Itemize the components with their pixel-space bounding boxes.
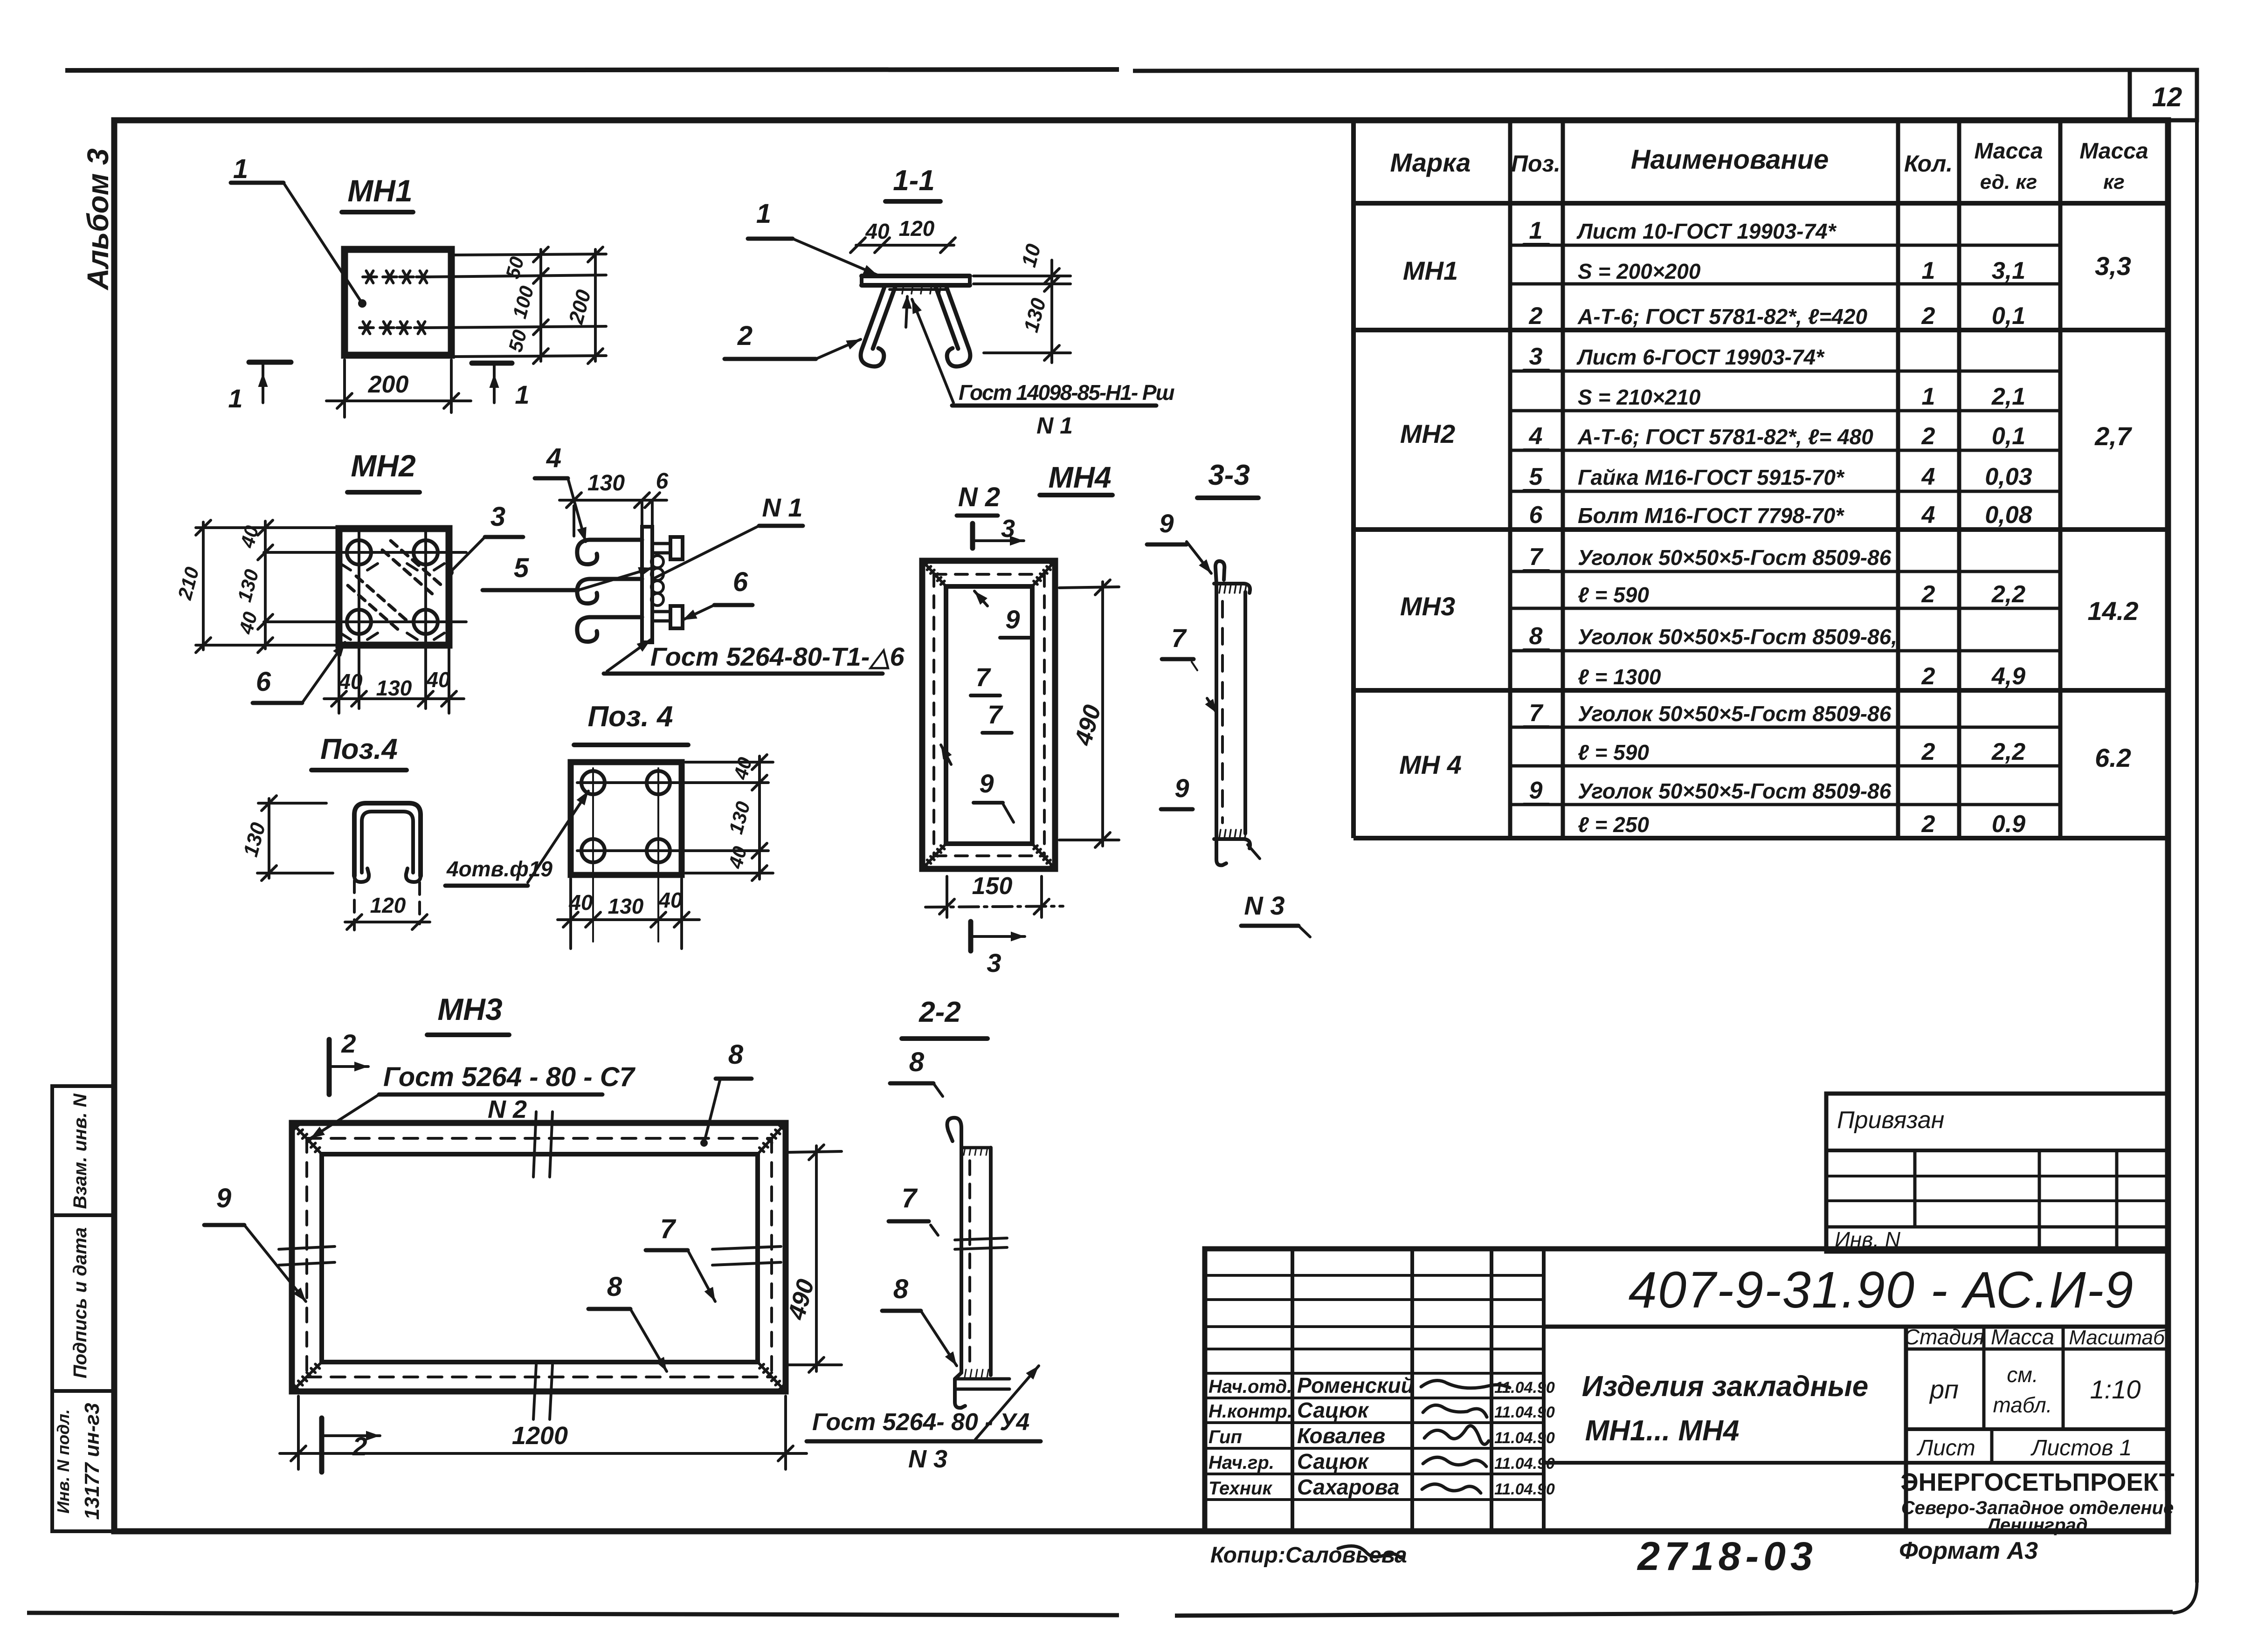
svg-text:6: 6 xyxy=(256,667,271,697)
table subrow line y=526 xyxy=(1510,244,2060,247)
svg-text:МН1: МН1 xyxy=(1403,256,1458,285)
stadia/massa divider xyxy=(1982,1327,1986,1429)
table column line x=3239 xyxy=(1508,120,1512,838)
dim line 200 horizontal xyxy=(326,399,471,402)
svg-text:200: 200 xyxy=(368,371,409,398)
2-2 serration bottom xyxy=(965,1370,966,1377)
underline MN1 xyxy=(342,210,413,214)
svg-text:0,03: 0,03 xyxy=(1985,463,2032,490)
svg-text:1: 1 xyxy=(233,154,248,184)
svg-text:Болт М16-ГОСТ 7798-70*: Болт М16-ГОСТ 7798-70* xyxy=(1578,503,1844,528)
svg-text:8: 8 xyxy=(909,1047,925,1077)
svg-text:МН 4: МН 4 xyxy=(1399,750,1462,779)
svg-text:2: 2 xyxy=(1529,303,1543,330)
svg-text:3,1: 3,1 xyxy=(1992,257,2025,284)
privyazan row line xyxy=(1826,1225,2168,1229)
svg-text:2-2: 2-2 xyxy=(918,996,961,1028)
privyazan header bottom xyxy=(1826,1149,2168,1152)
svg-text:2,2: 2,2 xyxy=(1991,738,2025,765)
MN3 dim 1200 xyxy=(297,1396,300,1469)
plate holes xyxy=(581,771,605,794)
svg-text:Нач.гр.: Нач.гр. xyxy=(1208,1452,1274,1473)
2-2 top hook xyxy=(947,1118,961,1151)
plate right dims 40 130 40 xyxy=(685,761,773,764)
svg-text:МН1... МН4: МН1... МН4 xyxy=(1585,1415,1740,1447)
svg-text:Уголок 50×50×5-Гост 8509-86: Уголок 50×50×5-Гост 8509-86 xyxy=(1578,545,1892,570)
svg-text:4: 4 xyxy=(1921,502,1935,529)
1-1 weld arrow xyxy=(906,296,907,327)
list/listov divider xyxy=(1990,1429,1994,1463)
svg-text:ℓ = 590: ℓ = 590 xyxy=(1578,740,1649,764)
svg-text:3-3: 3-3 xyxy=(1208,459,1250,491)
svg-text:ℓ = 1300: ℓ = 1300 xyxy=(1578,665,1661,689)
dim line 50-100-50 xyxy=(539,249,542,361)
svg-text:Техник: Техник xyxy=(1208,1478,1272,1499)
svg-text:МН1: МН1 xyxy=(347,173,412,208)
scan bottom edge line xyxy=(27,1613,1119,1615)
svg-text:МН4: МН4 xyxy=(1048,461,1111,494)
svg-text:40: 40 xyxy=(426,668,450,692)
3-3 vertical leg lines xyxy=(1215,584,1218,840)
plate bottom dims 40 130 40 xyxy=(569,879,572,949)
stamp signature row line y=2894 xyxy=(1205,1348,1544,1350)
svg-text:2,7: 2,7 xyxy=(2094,421,2133,451)
svg-text:Инв. N подл.: Инв. N подл. xyxy=(54,1409,73,1514)
svg-text:0.9: 0.9 xyxy=(1992,811,2025,838)
table subrow line y=966 xyxy=(1510,449,2060,452)
svg-text:Подпись и дата: Подпись и дата xyxy=(70,1227,90,1378)
privyazan col 1 xyxy=(1913,1150,1917,1227)
stamp vertical x=4088 xyxy=(1904,1327,1908,1531)
svg-text:3: 3 xyxy=(490,502,505,532)
svg-text:7: 7 xyxy=(975,662,991,692)
svg-text:МН3: МН3 xyxy=(437,992,502,1026)
poz4 hook bottom xyxy=(577,617,642,642)
svg-text:Уголок 50×50×5-Гост 8509-86: Уголок 50×50×5-Гост 8509-86 xyxy=(1578,702,1892,726)
svg-text:2,2: 2,2 xyxy=(1991,581,2025,608)
svg-text:13177 ин-г3: 13177 ин-г3 xyxy=(81,1403,104,1520)
underline Poz 4 xyxy=(574,743,688,747)
underline 2-2 xyxy=(902,1036,987,1041)
privyazan col 2 xyxy=(2038,1150,2041,1252)
svg-text:6: 6 xyxy=(1529,502,1543,529)
table subrow line y=1643 xyxy=(1510,764,2060,768)
MN4 inner rect xyxy=(946,586,1032,844)
stamp signature row line y=3217 xyxy=(1205,1498,1544,1501)
underline gost U4 xyxy=(807,1439,1041,1444)
page number box xyxy=(2130,70,2197,120)
svg-text:МН2: МН2 xyxy=(1400,419,1455,448)
svg-text:Гост 5264 - 80 - С7: Гост 5264 - 80 - С7 xyxy=(383,1062,636,1092)
svg-text:Роменский: Роменский xyxy=(1297,1373,1414,1397)
svg-text:8: 8 xyxy=(1529,623,1543,650)
svg-text:4: 4 xyxy=(1529,423,1543,450)
svg-text:Н.контр.: Н.контр. xyxy=(1208,1401,1292,1422)
table header bottom line xyxy=(1353,201,2168,206)
svg-text:12: 12 xyxy=(2152,82,2182,112)
privyazan col 3 xyxy=(2115,1150,2119,1252)
svg-text:3: 3 xyxy=(987,948,1001,977)
svg-text:Уголок 50×50×5-Гост 8509-86: Уголок 50×50×5-Гост 8509-86 xyxy=(1578,779,1892,803)
svg-text:14.2: 14.2 xyxy=(2088,596,2139,626)
underline MN3 xyxy=(427,1032,509,1037)
dim line 40 120 xyxy=(856,244,954,247)
svg-text:Гост 5264- 80 - У4: Гост 5264- 80 - У4 xyxy=(812,1409,1029,1436)
stamp vertical x=2772 xyxy=(1291,1249,1294,1531)
3-3 serration bottom xyxy=(1219,830,1221,838)
poz4 gost label xyxy=(607,640,651,671)
MN4 dim 150 xyxy=(946,876,948,917)
svg-text:ЭНЕРГОСЕТЬПРОЕКТ: ЭНЕРГОСЕТЬПРОЕКТ xyxy=(1900,1468,2175,1496)
MN2 bolt center lines xyxy=(264,551,466,554)
svg-text:1: 1 xyxy=(515,380,529,409)
svg-text:Ленинград: Ленинград xyxy=(1986,1515,2087,1535)
table subrow line y=1305 xyxy=(1510,607,2060,610)
MN3 inner rect xyxy=(322,1154,758,1362)
svg-text:Листов 1: Листов 1 xyxy=(2030,1436,2132,1460)
underline 3-3 xyxy=(1197,496,1258,500)
underline MN2 xyxy=(347,490,420,495)
svg-text:1: 1 xyxy=(1922,257,1935,284)
3-3 angle top flag xyxy=(1215,561,1224,584)
svg-text:7: 7 xyxy=(1171,623,1187,653)
svg-text:ед. кг: ед. кг xyxy=(1980,171,2037,193)
svg-text:ℓ = 250: ℓ = 250 xyxy=(1578,812,1649,837)
underline 1-1 xyxy=(885,199,940,204)
svg-text:4: 4 xyxy=(1921,463,1935,490)
section mark 1 right xyxy=(472,361,512,366)
MN3 dashed middle rect xyxy=(307,1137,772,1140)
massa/masshtab divider xyxy=(2062,1327,2065,1429)
1-1 right dims 10 and 130 xyxy=(974,275,1070,277)
scan right page edge xyxy=(2195,70,2199,1583)
3-3 dashed axis xyxy=(1221,601,1224,823)
svg-text:2: 2 xyxy=(1921,303,1935,330)
dim line 200 vertical xyxy=(594,249,597,361)
table block divider y=1136 xyxy=(1353,527,2168,532)
svg-text:Ковалев: Ковалев xyxy=(1297,1424,1385,1448)
svg-text:1: 1 xyxy=(1922,383,1935,410)
svg-text:0,08: 0,08 xyxy=(1985,502,2032,529)
MN4 dim 490 xyxy=(1059,587,1119,588)
svg-text:3: 3 xyxy=(1001,515,1015,543)
name cell bottom / list row bottom xyxy=(1544,1461,2168,1465)
MN2 diagonal anchor rod top (dashed) xyxy=(391,541,444,587)
svg-text:Лист 10-ГОСТ 19903-74*: Лист 10-ГОСТ 19903-74* xyxy=(1576,219,1837,243)
svg-text:9: 9 xyxy=(1159,509,1174,538)
svg-text:0,1: 0,1 xyxy=(1992,303,2025,330)
stamp signature row line y=3107 xyxy=(1205,1447,1544,1450)
svg-text:2,1: 2,1 xyxy=(1991,383,2025,410)
svg-text:6.2: 6.2 xyxy=(2095,743,2131,772)
1-1 right anchor leg xyxy=(946,286,969,349)
svg-text:4: 4 xyxy=(546,443,561,473)
table subrow line y=1054 xyxy=(1510,490,2060,493)
svg-text:Поз.4: Поз.4 xyxy=(320,733,398,765)
MN4 corner welds xyxy=(922,561,946,586)
table subrow line y=1396 xyxy=(1510,649,2060,653)
svg-text:120: 120 xyxy=(370,893,406,917)
underline gost S7 xyxy=(379,1093,602,1097)
svg-text:8: 8 xyxy=(607,1272,622,1302)
MN1 weld studs row 2 xyxy=(359,326,373,329)
svg-text:407-9-31.90 - АС.И-9: 407-9-31.90 - АС.И-9 xyxy=(1629,1261,2134,1319)
table column line x=4202 xyxy=(1957,120,1961,838)
stamp vertical x=3029 xyxy=(1410,1249,1414,1531)
underline gost 14098 xyxy=(952,404,1156,408)
section mark 3 top xyxy=(970,523,975,548)
table subrow line y=881 xyxy=(1510,409,2060,413)
MN1 dimension lines xyxy=(427,275,606,277)
svg-text:Масса: Масса xyxy=(1974,139,2043,164)
svg-text:11.04.90: 11.04.90 xyxy=(1494,1404,1555,1421)
table left edge xyxy=(1351,120,1356,838)
svg-text:табл.: табл. xyxy=(1993,1393,2052,1417)
svg-text:0,1: 0,1 xyxy=(1992,423,2025,450)
svg-text:Альбом 3: Альбом 3 xyxy=(81,148,115,290)
signatures squiggles xyxy=(1421,1381,1510,1388)
underline xyxy=(311,768,407,772)
svg-text:Масса: Масса xyxy=(1991,1325,2054,1349)
stamp signature row line y=2846 xyxy=(1205,1325,1544,1328)
svg-text:Изделия закладные: Изделия закладные xyxy=(1582,1370,1869,1403)
svg-text:9: 9 xyxy=(216,1183,231,1213)
svg-text:6: 6 xyxy=(656,469,669,494)
svg-text:5: 5 xyxy=(1529,463,1543,490)
section mark 2 bottom xyxy=(319,1418,325,1472)
svg-text:2: 2 xyxy=(1921,423,1935,450)
svg-text:Привязан: Привязан xyxy=(1837,1107,1944,1134)
2-2 serration top xyxy=(964,1148,965,1155)
svg-text:40: 40 xyxy=(338,669,363,694)
table column line x=4071 xyxy=(1896,120,1900,838)
svg-text:Сацюк: Сацюк xyxy=(1297,1398,1369,1422)
svg-text:130: 130 xyxy=(587,471,625,496)
stadia header bottom xyxy=(1906,1348,2168,1351)
svg-text:1200: 1200 xyxy=(512,1422,568,1450)
svg-text:N 1: N 1 xyxy=(1036,413,1073,439)
svg-text:3: 3 xyxy=(1529,343,1543,370)
MN4 dashed middle rect xyxy=(934,573,1044,576)
scan top edge line xyxy=(65,69,1119,70)
svg-text:11.04.90: 11.04.90 xyxy=(1494,1455,1555,1473)
svg-text:2718-03: 2718-03 xyxy=(1637,1534,1817,1579)
MN2 plate 210x210 xyxy=(339,529,449,645)
stamp vertical x=3311 xyxy=(1542,1249,1546,1531)
svg-text:3,3: 3,3 xyxy=(2095,251,2131,281)
1-1 plate bar xyxy=(862,274,970,278)
3-3 bottom leader tick xyxy=(1248,845,1260,859)
svg-text:130: 130 xyxy=(608,894,644,918)
svg-text:2: 2 xyxy=(1921,738,1935,765)
svg-text:2: 2 xyxy=(1921,663,1935,690)
svg-text:N 1: N 1 xyxy=(762,493,802,522)
MN3 break marks xyxy=(533,1112,536,1177)
svg-text:1: 1 xyxy=(756,199,771,229)
svg-text:7: 7 xyxy=(987,700,1003,729)
MN1 weld studs row 1 xyxy=(363,275,377,278)
svg-text:11.04.90: 11.04.90 xyxy=(1494,1379,1555,1397)
svg-text:150: 150 xyxy=(972,873,1013,900)
leader gost weld xyxy=(912,299,953,403)
MN4 outer rect xyxy=(922,561,1055,869)
svg-text:9: 9 xyxy=(1529,777,1543,804)
3-3 mid arrow xyxy=(1207,698,1217,713)
svg-text:7: 7 xyxy=(1529,544,1544,571)
table column line x=4419 xyxy=(2058,120,2063,838)
MN2 diagonal anchor rod bottom (dashed) xyxy=(356,576,409,623)
channel foot curls xyxy=(354,868,369,882)
svg-text:2: 2 xyxy=(341,1029,356,1058)
table subrow line y=796 xyxy=(1510,370,2060,373)
left margin stamp boxes xyxy=(52,1086,114,1215)
svg-text:Формат А3: Формат А3 xyxy=(1899,1537,2038,1564)
svg-text:7: 7 xyxy=(1529,700,1544,727)
section mark 2 top xyxy=(327,1039,332,1094)
title block (stamp) xyxy=(1205,1249,2168,1531)
table subrow line y=609 xyxy=(1510,282,2060,286)
stamp signature row line y=3162 xyxy=(1205,1473,1544,1475)
svg-text:40: 40 xyxy=(658,888,683,912)
section mark 1 left xyxy=(249,360,291,365)
stadia values bottom xyxy=(1906,1427,2168,1431)
table subrow line y=1726 xyxy=(1510,803,2060,806)
svg-text:Лист: Лист xyxy=(1916,1436,1975,1460)
stamp signature row line y=2736 xyxy=(1205,1274,1544,1277)
section mark 3 bottom xyxy=(968,922,974,951)
privyazan block xyxy=(1826,1094,2168,1252)
channel bottom dim 120 xyxy=(353,881,356,930)
svg-text:А-Т-6; ГОСТ 5781-82*, ℓ=420: А-Т-6; ГОСТ 5781-82*, ℓ=420 xyxy=(1577,304,1867,329)
svg-text:8: 8 xyxy=(893,1274,909,1304)
poz4 bottom bolt xyxy=(652,610,670,613)
svg-text:2: 2 xyxy=(737,321,753,351)
svg-text:Гост 5264-80-Т1-△6: Гост 5264-80-Т1-△6 xyxy=(650,642,905,671)
svg-text:Кол.: Кол. xyxy=(1904,151,1953,177)
svg-text:Поз. 4: Поз. 4 xyxy=(587,701,673,733)
2-2 break mark xyxy=(955,1238,1007,1240)
table subrow line y=1560 xyxy=(1510,726,2060,729)
svg-text:S = 210×210: S = 210×210 xyxy=(1578,385,1701,409)
svg-text:7: 7 xyxy=(660,1214,677,1244)
svg-text:2: 2 xyxy=(352,1432,367,1461)
svg-text:1:10: 1:10 xyxy=(2090,1375,2141,1404)
MN3 corner welds xyxy=(292,1123,322,1154)
MN2 left dims xyxy=(196,526,339,529)
svg-text:Гайка М16-ГОСТ 5915-70*: Гайка М16-ГОСТ 5915-70* xyxy=(1578,465,1845,489)
MN3 outer rect xyxy=(292,1123,786,1391)
svg-text:9: 9 xyxy=(1005,605,1020,634)
svg-text:1-1: 1-1 xyxy=(893,165,935,197)
svg-text:Марка: Марка xyxy=(1390,148,1471,177)
2-2 gost leader xyxy=(975,1366,1039,1439)
channel outer xyxy=(354,803,421,876)
svg-text:Взам. инв. N: Взам. инв. N xyxy=(70,1093,90,1209)
1-1 left anchor leg xyxy=(862,286,885,349)
svg-text:Сахарова: Сахарова xyxy=(1297,1475,1399,1499)
3-3 bottom flange xyxy=(1214,839,1250,848)
svg-text:2: 2 xyxy=(1921,811,1935,838)
privyazan row line xyxy=(1826,1199,2168,1202)
svg-text:ℓ = 590: ℓ = 590 xyxy=(1578,583,1649,607)
MN2 bolts xyxy=(347,540,371,564)
svg-text:Масса: Масса xyxy=(2079,139,2148,164)
svg-text:МН3: МН3 xyxy=(1400,592,1455,621)
svg-text:Лист 6-ГОСТ 19903-74*: Лист 6-ГОСТ 19903-74* xyxy=(1576,345,1825,369)
table bottom edge xyxy=(1353,836,2168,840)
2-2 vertical strip xyxy=(960,1151,963,1373)
stamp signature row line y=2999 xyxy=(1205,1397,1544,1399)
underline N2 xyxy=(957,514,998,518)
svg-text:МН2: МН2 xyxy=(351,448,416,483)
drawing frame xyxy=(114,120,2168,1531)
svg-text:11.04.90: 11.04.90 xyxy=(1494,1429,1555,1447)
svg-text:Наименование: Наименование xyxy=(1631,145,1829,175)
svg-text:N 2: N 2 xyxy=(958,482,1000,512)
svg-text:40: 40 xyxy=(568,890,593,915)
channel left dim 130 xyxy=(258,802,326,805)
svg-text:11.04.90: 11.04.90 xyxy=(1494,1480,1555,1498)
table block divider y=708 xyxy=(1353,328,2168,332)
svg-text:S = 200×200: S = 200×200 xyxy=(1578,259,1701,283)
svg-text:N 3: N 3 xyxy=(908,1445,947,1473)
1-1 weld seam under plate xyxy=(890,288,946,291)
svg-text:Нач.отд.: Нач.отд. xyxy=(1208,1377,1292,1397)
svg-text:7: 7 xyxy=(902,1183,918,1213)
underline MN4 xyxy=(1040,493,1112,497)
svg-text:Гост 14098-85-Н1- Рш: Гост 14098-85-Н1- Рш xyxy=(959,380,1175,405)
scan page edge corner xyxy=(2174,1583,2197,1613)
svg-text:Гип: Гип xyxy=(1208,1427,1242,1447)
poz4 top dim 130 / 6 xyxy=(573,506,575,536)
underline gost 5264 T1 xyxy=(604,672,883,676)
2-2 dashed axis xyxy=(968,1161,971,1363)
svg-text:Инв, N: Инв, N xyxy=(1835,1227,1901,1252)
3-3 bottom left leg xyxy=(1216,840,1226,865)
svg-text:9: 9 xyxy=(979,769,994,798)
svg-text:4,9: 4,9 xyxy=(1991,663,2025,690)
table block divider y=1481 xyxy=(1353,688,2168,693)
stamp title cell bottom xyxy=(1544,1325,2168,1329)
svg-text:120: 120 xyxy=(899,216,935,241)
leader 1 line xyxy=(283,183,362,303)
svg-text:6: 6 xyxy=(733,567,748,597)
plate hole center lines xyxy=(592,768,594,942)
stamp vertical x=3199 xyxy=(1490,1249,1493,1531)
3-3 serration top xyxy=(1219,585,1221,593)
svg-text:Сацюк: Сацюк xyxy=(1297,1449,1369,1473)
leader 1 underline xyxy=(231,181,283,185)
MN3 dim 490 xyxy=(789,1151,842,1152)
svg-text:Стадия: Стадия xyxy=(1904,1325,1984,1349)
svg-text:130: 130 xyxy=(376,676,412,700)
svg-text:Масштаб: Масштаб xyxy=(2069,1326,2166,1349)
svg-text:1: 1 xyxy=(1529,217,1543,244)
MN2 bottom dims xyxy=(338,649,340,713)
stamp signature row line y=2788 xyxy=(1205,1298,1544,1301)
svg-text:Уголок 50×50×5-Гост 8509-86,: Уголок 50×50×5-Гост 8509-86, xyxy=(1578,625,1897,649)
stamp signature row line y=2946 xyxy=(1205,1372,1544,1375)
svg-text:8: 8 xyxy=(728,1039,744,1070)
stamp signature row line y=3052 xyxy=(1205,1421,1544,1424)
2-2 bottom foot xyxy=(955,1373,965,1408)
svg-text:N 3: N 3 xyxy=(1244,891,1284,920)
svg-text:5: 5 xyxy=(514,553,529,583)
MN1 plate 200x200 xyxy=(345,249,451,355)
svg-text:А-Т-6; ГОСТ 5781-82*, ℓ= 480: А-Т-6; ГОСТ 5781-82*, ℓ= 480 xyxy=(1577,425,1873,449)
poz4 hook top xyxy=(577,540,642,564)
privyazan row line xyxy=(1826,1175,2168,1177)
